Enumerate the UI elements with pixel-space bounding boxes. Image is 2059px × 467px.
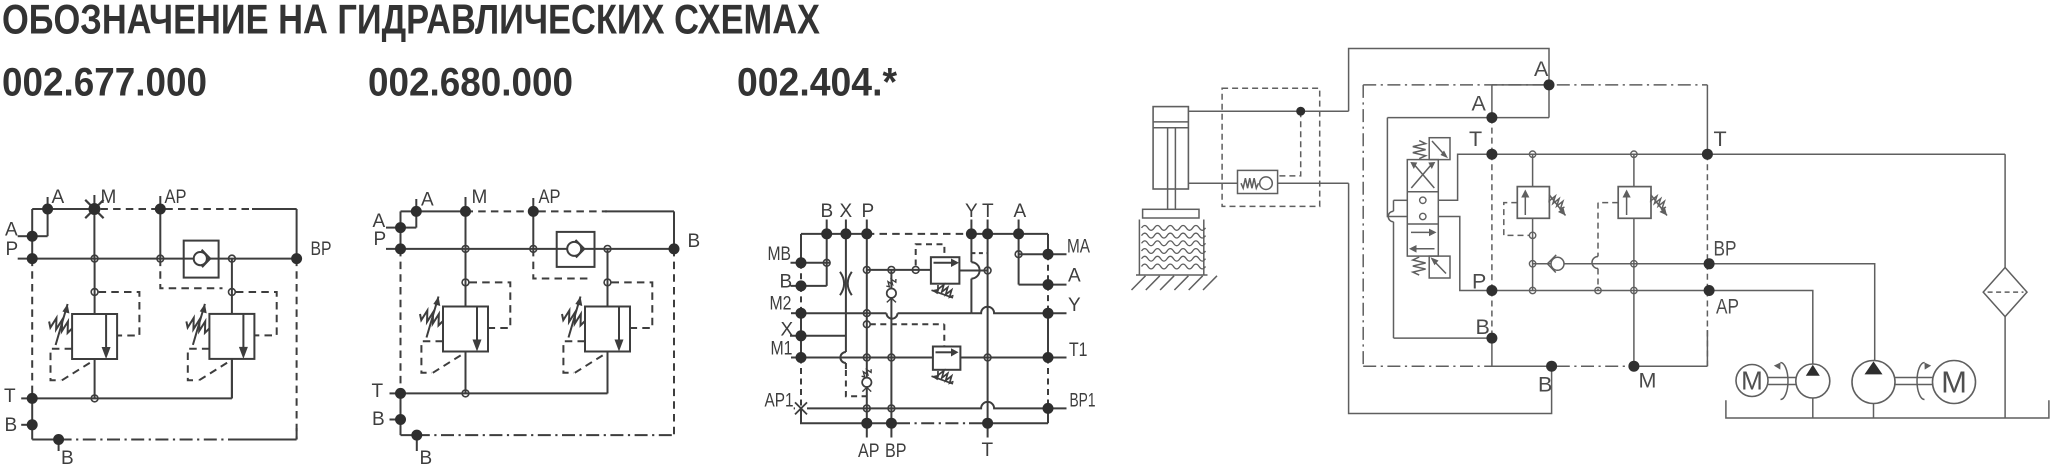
svg-text:T: T [1714, 127, 1727, 151]
svg-text:M2: M2 [770, 294, 792, 315]
svg-text:BP1: BP1 [1070, 391, 1096, 412]
svg-text:T: T [4, 386, 16, 407]
svg-text:B: B [420, 448, 433, 467]
svg-text:B: B [5, 415, 18, 436]
svg-text:T1: T1 [1069, 340, 1088, 361]
svg-text:M: M [1639, 369, 1657, 393]
svg-text:ОБОЗНАЧЕНИЕ НА ГИДРАВЛИЧЕСКИХ: ОБОЗНАЧЕНИЕ НА ГИДРАВЛИЧЕСКИХ СХЕМАХ [2, 0, 820, 43]
svg-text:T: T [372, 381, 384, 402]
svg-text:P: P [6, 239, 19, 260]
svg-text:A: A [5, 220, 18, 241]
svg-text:AP1: AP1 [765, 391, 794, 412]
svg-text:B: B [61, 448, 74, 467]
svg-text:T: T [1469, 127, 1482, 151]
svg-text:MB: MB [768, 244, 792, 265]
svg-text:M: M [1741, 366, 1763, 396]
svg-text:P: P [374, 229, 387, 250]
svg-text:BP: BP [885, 441, 907, 462]
svg-text:002.680.000: 002.680.000 [368, 61, 573, 105]
svg-text:T: T [982, 201, 994, 222]
svg-text:P: P [862, 201, 875, 222]
svg-text:A: A [1534, 57, 1549, 81]
svg-text:M1: M1 [771, 339, 793, 360]
svg-text:P: P [1472, 270, 1486, 294]
svg-text:B: B [1538, 373, 1552, 397]
svg-text:T: T [982, 440, 994, 461]
svg-text:AP: AP [539, 187, 561, 208]
svg-text:A: A [1068, 266, 1081, 287]
svg-text:A: A [1014, 201, 1027, 222]
svg-text:002.677.000: 002.677.000 [2, 61, 207, 105]
svg-text:X: X [840, 201, 853, 222]
svg-text:B: B [688, 231, 701, 252]
svg-text:Y: Y [965, 201, 978, 222]
svg-text:M: M [472, 187, 488, 208]
svg-text:AP: AP [165, 187, 187, 208]
svg-text:X: X [781, 320, 794, 341]
svg-text:B: B [821, 201, 834, 222]
svg-text:B: B [372, 409, 385, 430]
svg-text:A: A [1472, 92, 1487, 116]
svg-text:M: M [1941, 365, 1967, 400]
svg-text:BP: BP [311, 239, 332, 260]
svg-text:MA: MA [1067, 237, 1090, 258]
svg-text:002.404.*: 002.404.* [737, 61, 897, 105]
svg-text:AP: AP [1716, 295, 1739, 319]
svg-text:B: B [1476, 315, 1490, 339]
svg-text:B: B [780, 272, 793, 293]
svg-text:Y: Y [1068, 295, 1081, 316]
svg-text:A: A [52, 187, 65, 208]
svg-text:AP: AP [858, 441, 880, 462]
svg-text:BP: BP [1714, 237, 1737, 261]
svg-text:M: M [101, 187, 117, 208]
svg-text:A: A [421, 190, 434, 211]
